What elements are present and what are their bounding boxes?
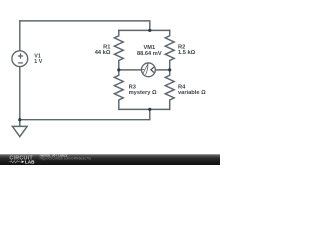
wire V1 top lead [19, 21, 21, 51]
logo zigzag [9, 161, 21, 163]
wire bridge bottom rail [119, 108, 170, 110]
node junction dots [18, 29, 171, 122]
wire V1 bottom lead [19, 66, 21, 126]
wire meter rail [119, 69, 170, 71]
svg-text:44 kΩ: 44 kΩ [95, 50, 111, 56]
logo arrow [22, 160, 25, 163]
voltmeter VM1 [142, 63, 156, 77]
resistor R4 [165, 70, 174, 110]
svg-text:mystery Ω: mystery Ω [129, 90, 157, 96]
node bridge right mid [168, 68, 171, 71]
resistor R1 [114, 30, 123, 70]
resistor R3 [114, 70, 123, 110]
wire bottom return [20, 109, 150, 119]
watermark logo [9, 154, 91, 165]
node bridge left mid [117, 68, 120, 71]
svg-text:LAB: LAB [25, 159, 35, 164]
node V1 bottom [18, 118, 21, 121]
labels [34, 44, 206, 96]
resistor R2 [165, 30, 174, 70]
wire bridge top rail [119, 29, 170, 31]
node top feed [148, 29, 151, 32]
svg-text:88.64 mV: 88.64 mV [137, 51, 162, 57]
svg-text:1.5 kΩ: 1.5 kΩ [178, 50, 196, 56]
svg-text:1 V: 1 V [34, 59, 42, 65]
node bottom tap [148, 108, 151, 111]
watermark bar [0, 154, 220, 165]
ground [12, 126, 27, 136]
svg-text:http://circuitlab.com/c4fK6eac: http://circuitlab.com/c4fK6eac7ru [40, 157, 92, 161]
voltage source V1 [12, 51, 28, 67]
svg-text:variable Ω: variable Ω [178, 90, 206, 96]
wire top rail from V1 to bridge feed [20, 21, 150, 31]
